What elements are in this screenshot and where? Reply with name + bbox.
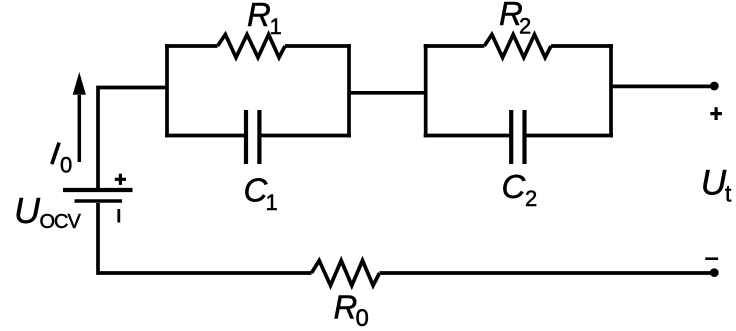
svg-text:C: C: [502, 168, 527, 205]
box2 right edge: [609, 44, 613, 137]
wire: battery bottom down and along bottom to R0: [98, 203, 312, 273]
box2 top edge right segment: [551, 44, 613, 48]
box2 left edge: [424, 44, 428, 137]
svg-text:U: U: [14, 190, 41, 231]
wire: box2 to top terminal: [611, 85, 713, 89]
battery minus tick: [117, 209, 120, 223]
box2 bottom edge right segment: [525, 134, 614, 138]
resistor R1: [218, 35, 286, 58]
svg-text:1: 1: [266, 190, 278, 215]
svg-text:R: R: [247, 0, 271, 33]
bottom terminal dot: [710, 268, 719, 277]
top terminal plus sign: [710, 107, 722, 120]
box2 bottom edge left segment: [424, 134, 512, 138]
bottom terminal minus sign: [705, 257, 718, 260]
svg-text:U: U: [701, 164, 727, 203]
wire: R0 to bottom terminal: [380, 271, 714, 275]
svg-text:R: R: [334, 289, 358, 326]
svg-text:1: 1: [270, 14, 282, 39]
svg-text:2: 2: [519, 13, 531, 38]
label Ut: [701, 164, 732, 207]
label C1: [244, 172, 278, 215]
wire: battery top node to box1 left: [98, 88, 167, 189]
box1 bottom edge left segment: [165, 134, 246, 138]
box1 top edge right segment: [285, 44, 351, 48]
battery positive plate: [63, 188, 133, 192]
capacitor C1: [246, 110, 259, 164]
box1 right edge: [347, 44, 351, 137]
battery negative plate: [75, 199, 123, 203]
wire: box1 to box2: [349, 91, 426, 95]
label I0: [52, 143, 72, 178]
svg-text:0: 0: [356, 305, 369, 331]
resistor R2: [484, 35, 551, 58]
svg-text:0: 0: [60, 152, 72, 177]
label C2: [502, 168, 538, 211]
label R2: [499, 0, 531, 38]
battery plus sign: [115, 174, 126, 185]
svg-text:OCV: OCV: [40, 211, 82, 233]
box1 top edge left segment: [165, 44, 218, 48]
svg-text:t: t: [725, 181, 732, 207]
current arrow I0: [73, 72, 86, 162]
label U_OCV: [14, 190, 82, 233]
top terminal dot: [710, 82, 719, 91]
svg-text:2: 2: [525, 186, 537, 211]
capacitor C2: [511, 110, 524, 164]
box1 left edge: [165, 44, 169, 137]
label R1: [247, 0, 282, 39]
box1 bottom edge right segment: [259, 134, 351, 138]
box2 top edge left segment: [424, 44, 485, 48]
resistor R0: [312, 261, 380, 286]
label R0: [334, 289, 369, 331]
